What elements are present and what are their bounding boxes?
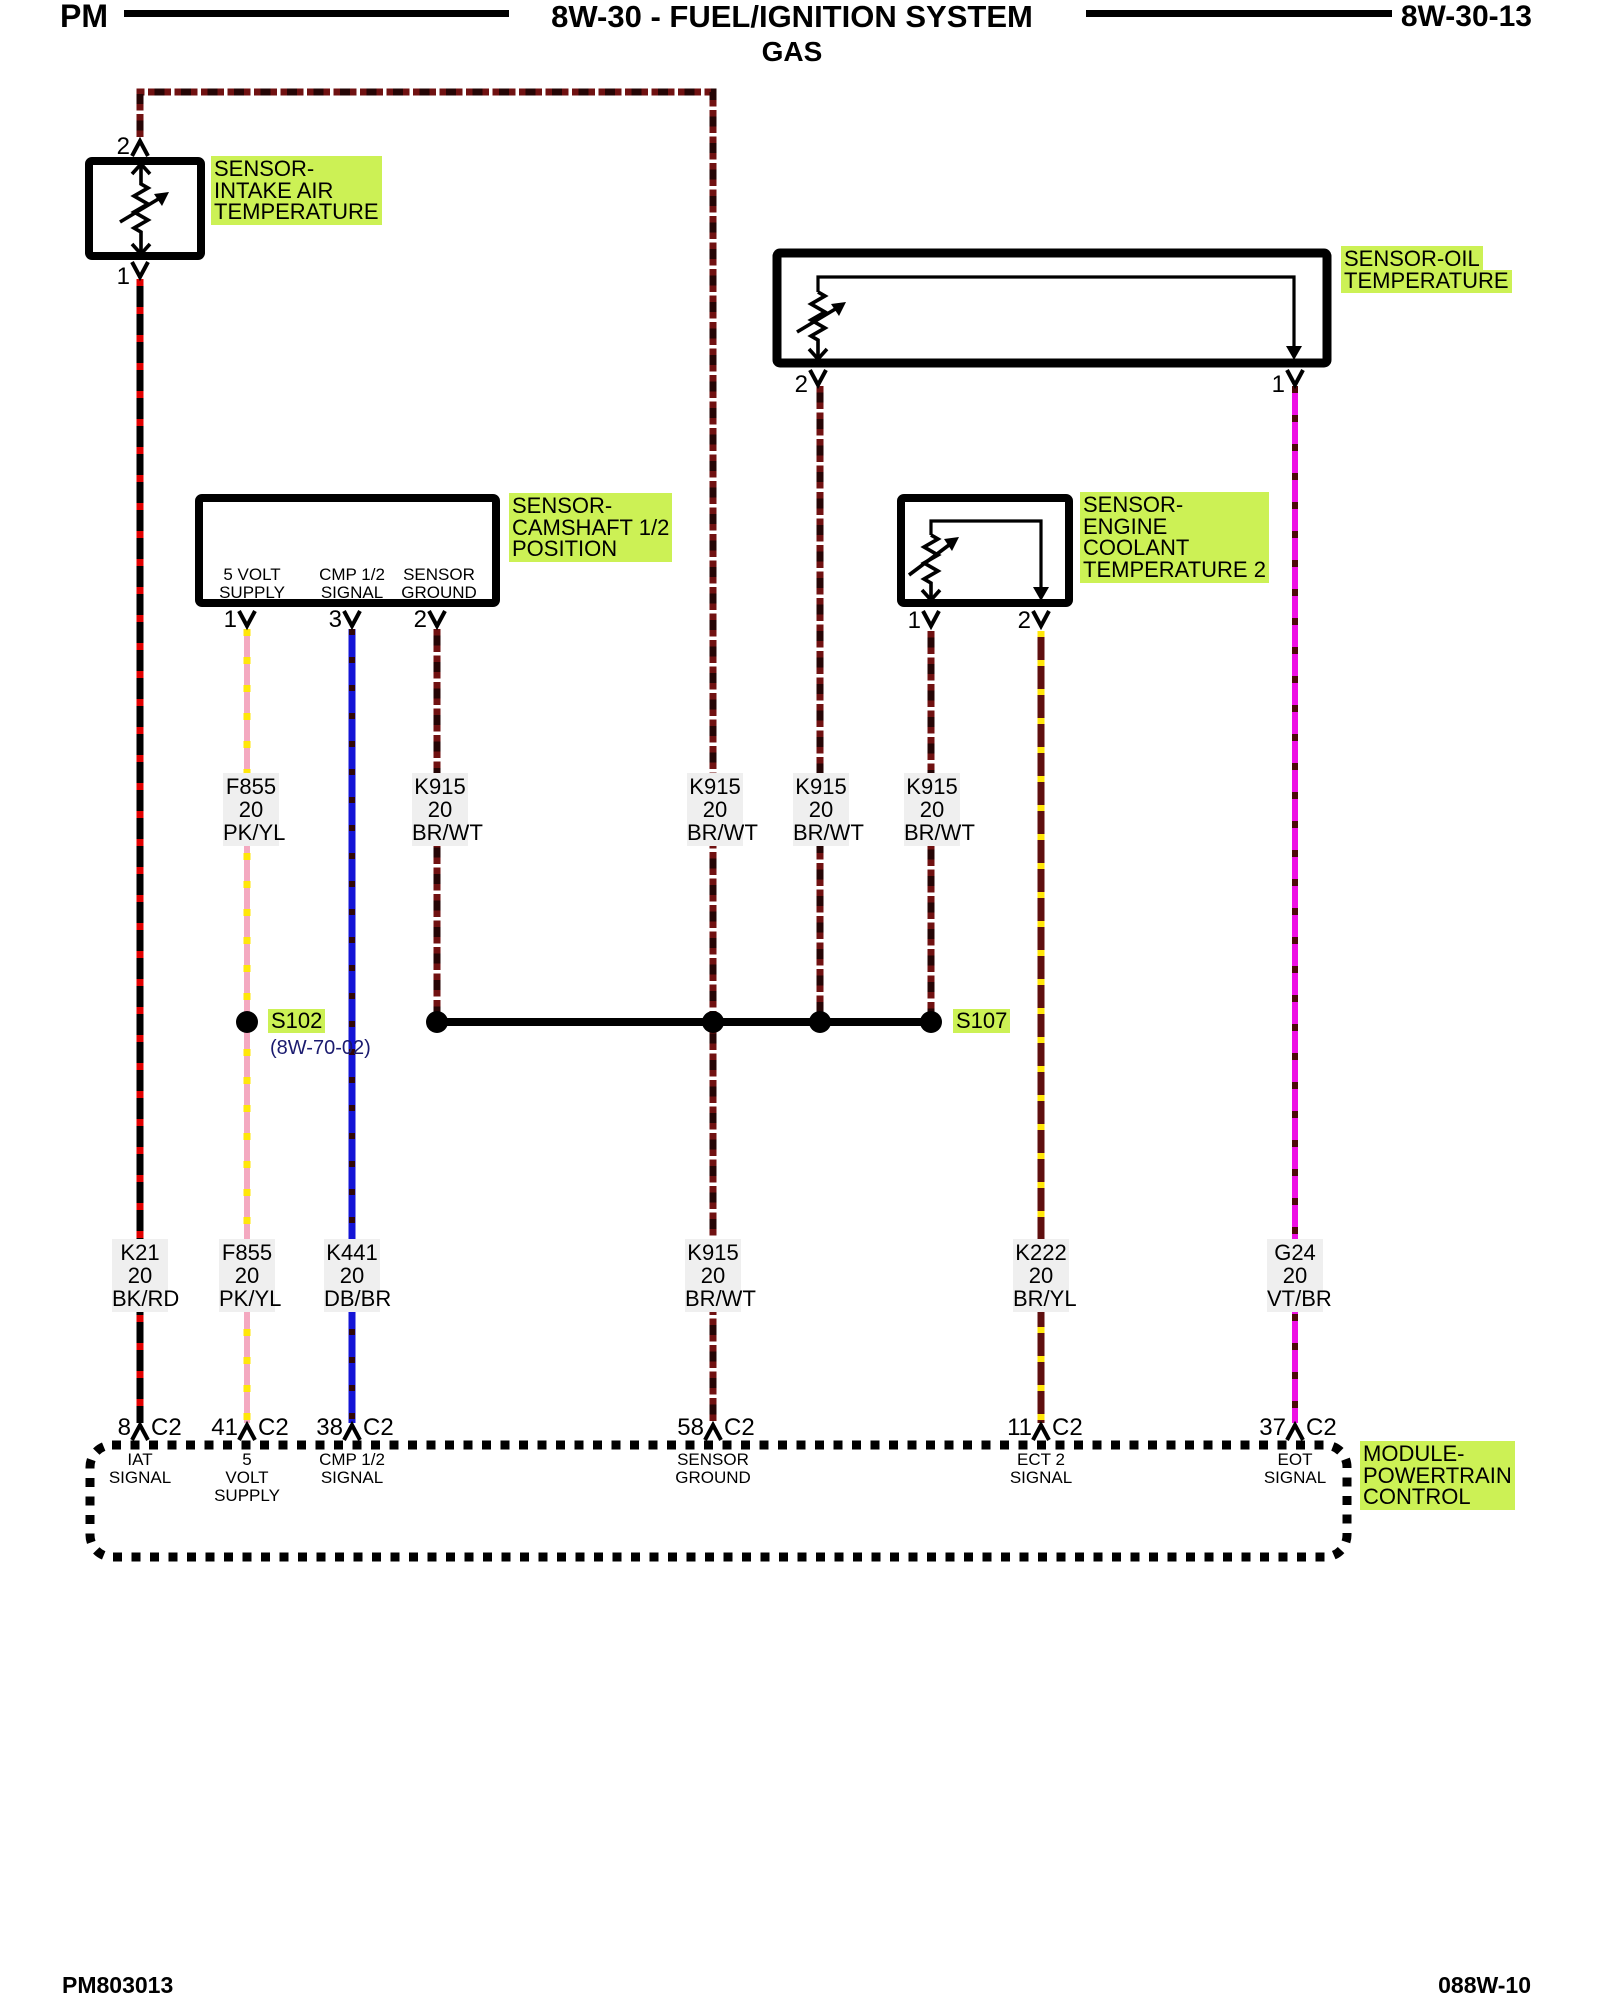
pin number 2 of oil temp sensor (795, 373, 808, 397)
pin number 1 of oil temp sensor (1272, 373, 1285, 397)
pin 2 chevron of ECT2 (1033, 611, 1049, 626)
PCM pin 41 chevron (239, 1425, 255, 1440)
wire label K222 bottom (1013, 1239, 1069, 1312)
wire label K915 top ect (904, 773, 960, 846)
label SENSOR-CAMSHAFT 1/2 POSITION (509, 493, 672, 562)
sensor oil temperature box (777, 253, 1327, 363)
CMP pin 2 function SENSOR GROUND (401, 566, 477, 602)
header title (551, 1, 1033, 32)
wire label K915 top mid (687, 773, 743, 846)
PCM pin 8 C2 (118, 1416, 131, 1440)
footer left (62, 1974, 173, 1997)
sensor ECT2 box (901, 498, 1069, 603)
sensor CMP box (199, 498, 496, 603)
pin 1 chevron of IAT (132, 262, 148, 277)
wire K915 BR/WT from ECT2 pin 1 to splice S107 (928, 631, 935, 1017)
label SENSOR-OIL TEMPERATURE (1341, 246, 1512, 293)
splice dot S107 mid (702, 1011, 724, 1033)
header rule left (124, 10, 509, 17)
PCM pin 38 C2 (316, 1416, 343, 1440)
PCM pin 11 chevron (1033, 1425, 1049, 1440)
PCM pin 38 chevron (344, 1425, 360, 1440)
splice dot S102 (236, 1011, 258, 1033)
splice dot S107 left (426, 1011, 448, 1033)
pin number 3 of CMP sensor (329, 608, 342, 632)
splice S107 label (953, 1009, 1010, 1033)
PCM pin 58 function SENSOR GROUND (675, 1451, 751, 1487)
wire label G24 bottom (1267, 1239, 1323, 1312)
header rule right (1086, 10, 1392, 17)
wire K441 DB/BR from CMP pin 3 to PCM pin 38 (349, 629, 356, 1423)
splice dot S107 right (920, 1011, 942, 1033)
label SENSOR-INTAKE AIR TEMPERATURE (211, 156, 382, 225)
splice dot S107 mid2 (809, 1011, 831, 1033)
wire label F855 bottom (219, 1239, 275, 1312)
wire label F855 top (223, 773, 279, 846)
wire label K441 bottom (324, 1239, 380, 1312)
PCM pin 11 function ECT 2 SIGNAL (1010, 1451, 1072, 1487)
thermistor inside oil temp sensor (818, 277, 1294, 347)
PCM pin 11 C2 (1007, 1416, 1032, 1440)
wire K915 BR/WT from CMP pin 2 to splice S107 (434, 629, 441, 1017)
sensor IAT box (89, 161, 201, 256)
PCM pin 38 function CMP 1/2 SIGNAL (319, 1451, 385, 1487)
pin number 1 of ECT2 sensor (908, 609, 921, 633)
PCM pin 41 C2 (211, 1416, 238, 1440)
PCM pin 8 function IAT SIGNAL (109, 1451, 171, 1487)
wire K21 BK/RD from IAT pin 1 to PCM pin 8 (137, 279, 144, 1423)
thermistor inside IAT (120, 164, 160, 254)
footer right (1438, 1974, 1531, 1997)
thermistor inside ECT2 (931, 521, 1041, 588)
CMP pin 1 function 5 VOLT SUPPLY (219, 566, 285, 602)
label MODULE-POWERTRAIN CONTROL (1360, 1441, 1515, 1510)
pin number 2 of ECT2 sensor (1018, 609, 1031, 633)
splice S102 reference (270, 1037, 371, 1060)
PCM pin 37 C2 (1259, 1416, 1286, 1440)
PCM pin 37 function EOT SIGNAL (1264, 1451, 1326, 1487)
PCM pin 8 chevron (132, 1425, 148, 1440)
pin number 1 of CMP sensor (224, 608, 237, 632)
pin 2 chevron of CMP (429, 611, 445, 626)
PCM pin 41 function 5 VOLT SUPPLY (214, 1451, 280, 1505)
wire K222 BR/YL from ECT2 pin 2 to PCM pin 11 (1038, 631, 1045, 1423)
module PCM dotted outline (90, 1445, 1347, 1557)
pin 2 chevron of IAT (132, 141, 148, 156)
wire K915 BR/WT from oil temp pin 2 to splice S107 (817, 386, 824, 1017)
PCM pin 58 C2 (677, 1416, 704, 1440)
pin number 1 of IAT sensor (117, 265, 130, 289)
label SENSOR-ENGINE COOLANT TEMPERATURE 2 (1080, 492, 1269, 583)
header page number (1401, 1, 1532, 32)
wire label K915 top cam (412, 773, 468, 846)
splice S107 bus (437, 1018, 931, 1026)
wire label K21 bottom (112, 1239, 168, 1312)
PCM pin 58 chevron (705, 1425, 721, 1440)
PCM pin 37 chevron (1287, 1425, 1303, 1440)
pin 1 chevron of ECT2 (923, 611, 939, 626)
wire label K915 bottom (685, 1239, 741, 1312)
wire G24 VT/BR from oil temp pin 1 to PCM pin 37 (1292, 386, 1298, 1423)
pin 3 chevron of CMP (344, 611, 360, 626)
wire K915 BR/WT from splice S107 to PCM pin 58 (710, 1027, 717, 1423)
wire label K915 top oil (793, 773, 849, 846)
pin 1 chevron of oil temp (1287, 370, 1303, 385)
wire K915 BR/WT top run from IAT pin 2 to splice S107 (140, 92, 713, 1017)
header text PM (60, 0, 108, 32)
pin number 2 of IAT sensor (117, 135, 130, 159)
pin number 2 of CMP sensor (414, 608, 427, 632)
pin 1 chevron of CMP (239, 611, 255, 626)
pin 2 chevron of oil temp (810, 370, 826, 385)
wire F855 PK/YL from CMP pin 1 through S102 to PCM pin 41 (244, 629, 250, 1423)
CMP pin 3 function CMP 1/2 SIGNAL (319, 566, 385, 602)
splice S102 label (268, 1009, 325, 1033)
header GAS (762, 37, 823, 66)
